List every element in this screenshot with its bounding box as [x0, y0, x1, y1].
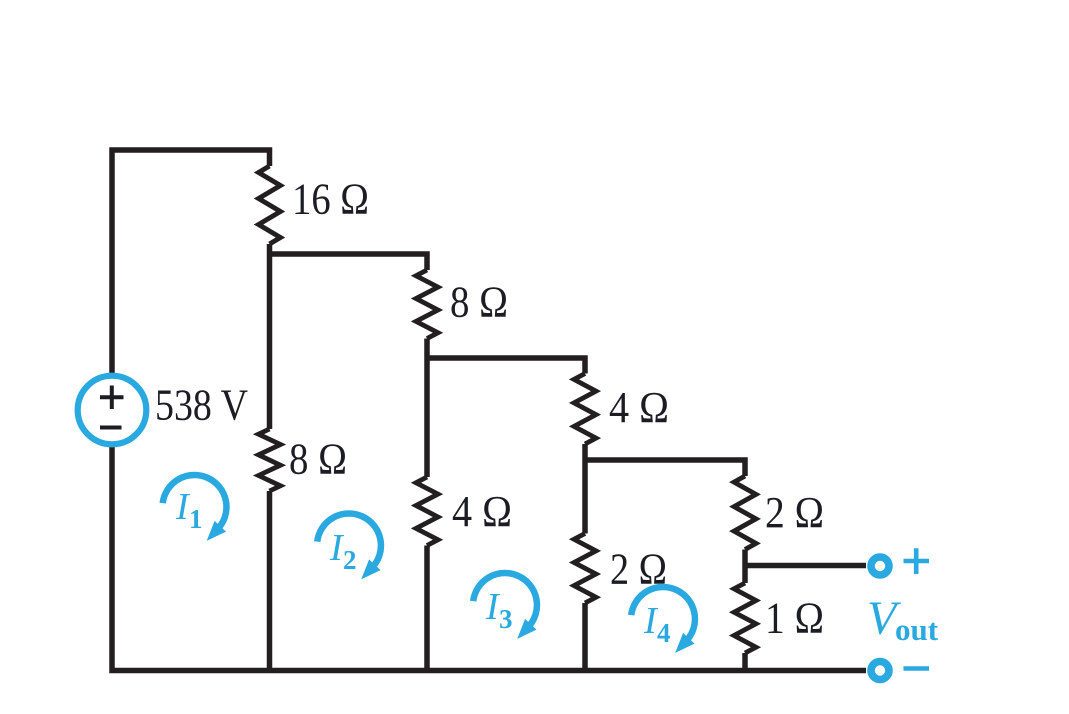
- resistor 4 ohm (series, tier 3): [574, 374, 596, 445]
- resistor 2 ohm (shunt, leg 3): [574, 534, 596, 604]
- wire: output plus lead: [745, 563, 866, 569]
- wire: source bottom + bottom rail to minus terminal: [112, 447, 866, 671]
- wire: node B vertical (8-ohm series bottom to 4-ohm shunt top): [424, 339, 430, 478]
- svg-text:4: 4: [657, 618, 671, 648]
- mesh current I3 arrow: [473, 573, 537, 627]
- voltage source V1 538 V: [78, 376, 147, 445]
- svg-text:8 Ω: 8 Ω: [289, 435, 347, 484]
- resistor 16 ohm (series, top): [259, 166, 281, 244]
- wire: node C vertical (4-ohm series bottom to 2-ohm shunt top): [582, 444, 588, 534]
- resistor 8 ohm (shunt, leg 1): [259, 429, 281, 491]
- svg-text:8 Ω: 8 Ω: [450, 278, 508, 327]
- svg-text:1 Ω: 1 Ω: [765, 594, 824, 643]
- svg-text:4 Ω: 4 Ω: [452, 487, 512, 536]
- wire: 2-ohm shunt bottom to bottom rail: [582, 603, 588, 673]
- svg-text:1: 1: [189, 504, 203, 534]
- svg-text:3: 3: [499, 604, 513, 634]
- resistor 1 ohm (output leg): [734, 583, 756, 653]
- wire: 8-ohm shunt bottom to bottom rail: [267, 491, 273, 673]
- resistor 4 ohm (shunt, leg 2): [416, 477, 438, 546]
- resistor 8 ohm (series, tier 2): [416, 270, 438, 339]
- wire: 4-ohm shunt bottom to bottom rail: [424, 546, 430, 674]
- wire: node A vertical (16-ohm bottom to 8-ohm shunt top): [267, 244, 273, 429]
- wire: tier-3 rail to 4-ohm series top: [427, 358, 585, 374]
- mesh current I2 arrow: [317, 514, 381, 568]
- svg-text:4 Ω: 4 Ω: [609, 383, 669, 432]
- wire: tier-4 rail to 2-ohm series top: [585, 460, 745, 476]
- wire: 1-ohm bottom to bottom rail: [742, 653, 748, 673]
- svg-text:538 V: 538 V: [155, 381, 248, 430]
- wire: node D vertical (2-ohm series bottom to 1-ohm top): [742, 550, 748, 584]
- mesh current I1 arrow: [163, 475, 227, 529]
- svg-text:2: 2: [343, 545, 357, 575]
- output terminal plus (node): [871, 557, 889, 575]
- wire: source top, top rail, to 16-ohm top: [112, 150, 270, 374]
- plus sign: [904, 548, 930, 574]
- svg-text:2 Ω: 2 Ω: [765, 488, 824, 537]
- output terminal minus (node): [871, 662, 889, 680]
- mesh current I4 arrow: [631, 587, 695, 641]
- minus sign: [904, 666, 930, 671]
- resistor 2 ohm (series, tier 4): [734, 476, 756, 550]
- wire: tier-2 rail to 8-ohm series top: [270, 254, 428, 270]
- svg-text:out: out: [895, 612, 939, 647]
- svg-text:16 Ω: 16 Ω: [292, 175, 369, 224]
